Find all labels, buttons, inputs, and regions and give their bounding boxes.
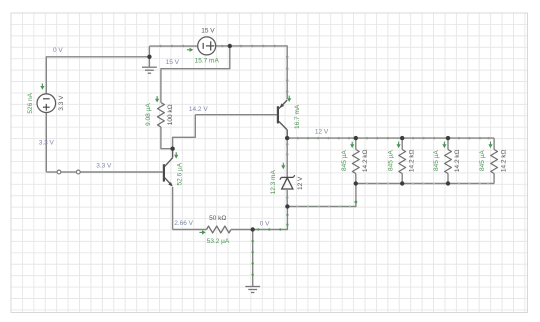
svg-text:845 µA: 845 µA: [479, 150, 486, 171]
svg-text:0 V: 0 V: [53, 47, 63, 54]
svg-text:14.2 kΩ: 14.2 kΩ: [408, 149, 415, 172]
svg-text:100 kΩ: 100 kΩ: [167, 104, 174, 125]
svg-text:3.3 V: 3.3 V: [96, 163, 112, 170]
svg-text:50 kΩ: 50 kΩ: [209, 215, 226, 222]
svg-text:12 V: 12 V: [315, 128, 329, 135]
svg-text:845 µA: 845 µA: [341, 150, 348, 171]
svg-text:3.3 V: 3.3 V: [58, 95, 65, 111]
svg-text:53.2 µA: 53.2 µA: [207, 238, 230, 245]
svg-text:12.3 mA: 12.3 mA: [270, 170, 277, 195]
svg-text:3.3 V: 3.3 V: [39, 139, 55, 146]
svg-text:15.7 mA: 15.7 mA: [195, 58, 220, 65]
svg-text:14.2 kΩ: 14.2 kΩ: [500, 149, 507, 172]
svg-text:15 V: 15 V: [201, 28, 215, 35]
svg-text:52.6 µA: 52.6 µA: [177, 162, 184, 185]
svg-text:14.2 kΩ: 14.2 kΩ: [454, 149, 461, 172]
svg-text:12 V: 12 V: [297, 176, 304, 190]
svg-text:845 µA: 845 µA: [433, 150, 440, 171]
svg-text:0 V: 0 V: [260, 221, 270, 228]
svg-text:845 µA: 845 µA: [387, 150, 394, 171]
svg-text:15 V: 15 V: [166, 59, 180, 66]
svg-text:9.08 µA: 9.08 µA: [145, 103, 152, 126]
svg-text:2.66 V: 2.66 V: [174, 220, 193, 227]
svg-text:526 nA: 526 nA: [27, 92, 34, 113]
svg-text:14.2 kΩ: 14.2 kΩ: [362, 149, 369, 172]
svg-text:16.7 mA: 16.7 mA: [294, 104, 301, 129]
svg-text:14.2 V: 14.2 V: [189, 106, 208, 113]
